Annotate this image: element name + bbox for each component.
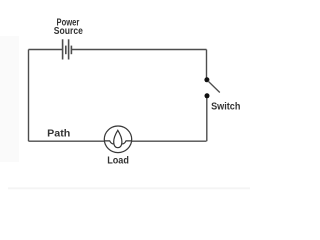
wire top-left segment	[29, 49, 63, 51]
lamp flame	[114, 130, 122, 147]
lamp L1 (load)	[104, 126, 131, 153]
svg-text:Load: Load	[107, 155, 129, 166]
label Switch	[211, 102, 240, 113]
switch terminal dot lower	[205, 93, 210, 98]
svg-text:Source: Source	[54, 26, 83, 37]
faint bottom divider	[8, 187, 250, 189]
switch lever	[208, 81, 220, 93]
lamp base wire with dip	[104, 141, 131, 144]
label Path	[47, 129, 70, 140]
wire left side	[28, 50, 30, 142]
switch terminal dot upper	[204, 77, 209, 82]
battery long plate 1	[62, 39, 64, 59]
lamp circle	[104, 126, 131, 153]
label Load	[107, 155, 129, 166]
svg-text:Path: Path	[47, 129, 70, 140]
wire bottom-left segment	[29, 140, 105, 142]
faint left margin tint	[0, 36, 19, 162]
label Power Source	[54, 18, 83, 37]
battery long plate 2	[68, 39, 70, 59]
battery short plate 1	[65, 46, 67, 55]
switch S1	[204, 77, 219, 98]
battery B1 (power source)	[63, 39, 72, 59]
wire right-top segment (corner to switch)	[206, 50, 208, 79]
svg-text:Switch: Switch	[211, 102, 240, 113]
wire top-right segment	[71, 49, 206, 51]
wire right-bottom segment (switch to corner)	[206, 97, 208, 141]
wire bottom-right segment	[132, 140, 207, 142]
battery short plate 2	[70, 46, 72, 55]
